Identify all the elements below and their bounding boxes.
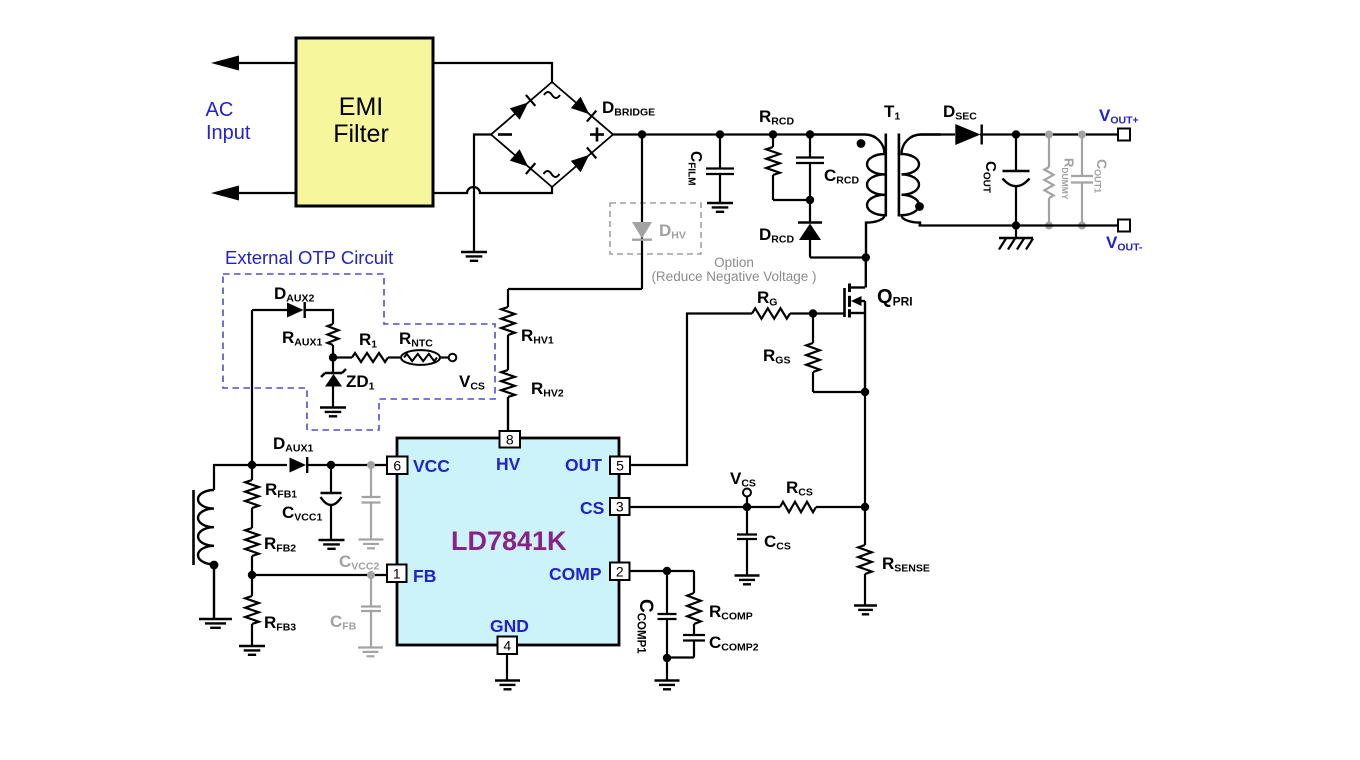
transformer T1 core bbox=[884, 134, 887, 217]
ground (C_FB, gray) bbox=[358, 646, 383, 648]
wire EMI bottom output to bridge bottom vertex (hop over ground wire) bbox=[433, 187, 552, 193]
ground (C_VCC2, gray) bbox=[359, 538, 384, 540]
wire aux rail (D_AUX2 anode down to VCC row) bbox=[251, 310, 253, 465]
pin 4 (GND) bbox=[498, 637, 518, 655]
svg-text:4: 4 bbox=[503, 637, 511, 653]
svg-text:External OTP Circuit: External OTP Circuit bbox=[225, 247, 393, 268]
wire AC line 2 (bottom) to EMI filter bbox=[218, 192, 296, 194]
bridge AC mark bottom (~) bbox=[544, 171, 560, 177]
wire R_G to gate bbox=[790, 312, 844, 314]
resistor R_FB1 bbox=[251, 465, 253, 480]
capacitor C_RCD bbox=[809, 135, 811, 158]
svg-text:3: 3 bbox=[616, 499, 624, 515]
node C_FILM tap bbox=[716, 130, 724, 138]
node RCD clamp junction bbox=[806, 196, 814, 204]
open terminal (NTC sense) bbox=[449, 354, 457, 362]
wire R_CS to source bbox=[816, 506, 865, 508]
node FB divider junction bbox=[248, 571, 256, 579]
arrow AC input top bbox=[211, 56, 239, 71]
bridge diode upper-left (anode at - node) bbox=[510, 102, 529, 119]
ground (C_VCC1) bbox=[319, 539, 345, 541]
svg-text:Option: Option bbox=[714, 255, 754, 270]
node bridge output junction bbox=[638, 130, 646, 138]
wire EMI top output to bridge top vertex bbox=[433, 63, 552, 82]
svg-text:Filter: Filter bbox=[333, 120, 389, 148]
svg-text:6: 6 bbox=[393, 457, 401, 473]
pin 3 (CS) bbox=[610, 498, 630, 515]
wire secondary to D_SEC bbox=[919, 133, 956, 135]
node aux rail / VCC junction bbox=[248, 461, 256, 469]
wire CS pin row bbox=[631, 506, 781, 508]
wire R_NTC to open terminal bbox=[440, 356, 449, 358]
svg-text:FB: FB bbox=[413, 566, 436, 586]
svg-text:COMP: COMP bbox=[549, 564, 602, 584]
wire output - rail bbox=[919, 224, 1119, 226]
node C_VCC2 tap (gray) bbox=[367, 461, 375, 469]
diode bridge D_BRIDGE diamond outline bbox=[491, 82, 613, 187]
thermistor R_NTC bbox=[401, 350, 440, 365]
node OTP divider junction bbox=[329, 353, 337, 361]
wire R_COMP branch down bbox=[693, 571, 695, 593]
diode D_SEC bbox=[955, 124, 980, 145]
pin 1 (FB) bbox=[387, 565, 407, 583]
wire aux winding top bbox=[214, 465, 252, 490]
svg-text:LD7841K: LD7841K bbox=[451, 526, 567, 556]
transformer T1 secondary phase dot bbox=[915, 202, 924, 211]
ground (COMP network) bbox=[655, 679, 680, 681]
wire GND pin to ground bbox=[506, 654, 508, 681]
option box (dashed) for D_HV bbox=[610, 203, 701, 254]
svg-text:CS: CS bbox=[580, 498, 604, 518]
resistor R_HV1 bbox=[501, 307, 515, 335]
wire D_AUX2 cathode to R_AUX1 bbox=[305, 310, 333, 324]
ground (bridge return) bbox=[461, 251, 487, 253]
arrow AC input bottom bbox=[211, 186, 239, 201]
wire bridge - vertex to ground bbox=[474, 135, 491, 253]
wire AC line 1 (top) to EMI filter bbox=[218, 62, 296, 64]
node source junction bbox=[861, 388, 869, 396]
node drain / clamp junction bbox=[862, 253, 870, 261]
transformer aux winding bbox=[198, 490, 214, 619]
wire D_AUX2 anode lead bbox=[252, 309, 287, 311]
earth ground (secondary) bbox=[1015, 226, 1017, 239]
node CS junction bbox=[743, 503, 751, 511]
wire D_AUX1 cathode to VCC pin bbox=[307, 464, 387, 466]
transformer T1 secondary winding bbox=[902, 135, 942, 226]
diode D_RCD (cathode up) bbox=[809, 200, 811, 223]
svg-text:HV: HV bbox=[496, 454, 521, 474]
node R_SENSE junction bbox=[861, 503, 869, 511]
capacitor C_FILM bbox=[719, 135, 721, 169]
dashed region External OTP Circuit bbox=[223, 274, 495, 430]
transformer T1 primary winding bbox=[812, 135, 885, 258]
capacitor C_CS bbox=[746, 507, 748, 534]
transistor Q_PRI (power MOSFET) bbox=[843, 288, 846, 317]
svg-text:1: 1 bbox=[393, 565, 401, 581]
capacitor C_COMP1 bbox=[666, 571, 668, 614]
svg-text:(Reduce Negative Voltage ): (Reduce Negative Voltage ) bbox=[651, 269, 816, 284]
transformer aux core bbox=[192, 490, 195, 565]
svg-text:EMI: EMI bbox=[339, 93, 383, 121]
bridge diode lower-left bbox=[510, 149, 529, 166]
wire COMP branch return bbox=[667, 656, 694, 658]
bridge minus mark bbox=[498, 133, 512, 136]
resistor R_DUMMY (gray) bbox=[1048, 135, 1050, 168]
node C_OUT1 - tap (gray) bbox=[1078, 222, 1086, 230]
node COMP ground junction bbox=[663, 654, 671, 662]
resistor R_SENSE bbox=[864, 507, 866, 545]
diode D_AUX1 bbox=[290, 458, 307, 473]
node C_OUT1 + tap (gray) bbox=[1078, 131, 1086, 139]
svg-text:2: 2 bbox=[616, 563, 624, 579]
node R_DUMMY - tap (gray) bbox=[1045, 222, 1053, 230]
node C_OUT + tap bbox=[1012, 130, 1020, 138]
ground (R_SENSE) bbox=[854, 604, 877, 606]
resistor R_FB2 bbox=[245, 528, 259, 556]
node COMP junction bbox=[663, 567, 671, 575]
wire R_HV2 to HV pin bbox=[507, 397, 509, 431]
svg-text:VCC: VCC bbox=[413, 456, 450, 476]
bridge plus mark bbox=[590, 133, 604, 136]
transformer T1 primary phase dot bbox=[857, 139, 866, 148]
block EMI Filter bbox=[296, 38, 433, 206]
bridge diode upper-right (cathode at + node) bbox=[571, 97, 590, 114]
svg-text:Input: Input bbox=[206, 122, 251, 144]
terminal V_OUT+ bbox=[1118, 129, 1130, 141]
svg-text:GND: GND bbox=[490, 616, 529, 636]
bridge diode lower-right bbox=[571, 155, 590, 172]
wire output + rail bbox=[980, 133, 1118, 135]
resistor R_FB3 bbox=[251, 575, 253, 596]
pin 6 (VCC) bbox=[387, 457, 408, 475]
svg-text:OUT: OUT bbox=[565, 455, 602, 475]
zener diode ZD1 (cathode up) bbox=[325, 372, 342, 374]
wire R1 to R_NTC bbox=[388, 356, 401, 358]
capacitor C_VCC1 (electrolytic) bbox=[330, 465, 332, 493]
bridge AC mark top (~) bbox=[544, 92, 560, 98]
node C_RCD tap bbox=[806, 130, 814, 138]
wire COMP to ground bbox=[666, 658, 668, 681]
pin 2 (COMP) bbox=[610, 563, 630, 581]
wire rectified DC rail bbox=[613, 133, 812, 135]
node R_DUMMY + tap (gray) bbox=[1045, 131, 1053, 139]
capacitor C_FB (gray) bbox=[370, 575, 372, 606]
pin 5 (OUT) bbox=[610, 457, 630, 475]
node gate junction bbox=[809, 309, 817, 317]
ground (aux winding) bbox=[199, 618, 232, 620]
diode D_HV (gray, cathode down) bbox=[632, 222, 652, 239]
node output - junction bbox=[1012, 221, 1020, 229]
ground (C_CS) bbox=[735, 574, 760, 576]
capacitor C_OUT (electrolytic) bbox=[1015, 135, 1017, 171]
wire FB row bbox=[252, 574, 387, 576]
node R_RCD tap bbox=[769, 130, 777, 138]
svg-text:5: 5 bbox=[616, 457, 624, 473]
resistor R_HV2 bbox=[501, 370, 515, 397]
ground (C_FILM) bbox=[707, 202, 733, 204]
node C_VCC1 tap bbox=[327, 461, 335, 469]
wire source to current sense bbox=[864, 392, 866, 507]
resistor R_GS bbox=[812, 314, 814, 344]
terminal V_OUT- bbox=[1118, 220, 1130, 232]
resistor R_AUX1 bbox=[328, 324, 339, 345]
wire VCC row from aux rail bbox=[252, 464, 287, 466]
resistor R_G bbox=[752, 308, 790, 318]
resistor R_RCD bbox=[772, 135, 774, 148]
resistor R_CS bbox=[780, 502, 816, 512]
ground (ZD1) bbox=[320, 406, 346, 408]
op-amp / controller IC U1 LD7841K body bbox=[397, 438, 619, 645]
transformer aux phase dot bbox=[210, 561, 219, 570]
svg-text:AC: AC bbox=[206, 99, 234, 121]
capacitor C_COMP2 bbox=[683, 634, 705, 636]
resistor R1 bbox=[352, 353, 388, 362]
node V_CS open terminal bbox=[743, 489, 751, 497]
diode D_AUX2 bbox=[287, 303, 304, 318]
capacitor C_VCC2 (gray) bbox=[370, 465, 372, 497]
ground (IC GND) bbox=[495, 679, 520, 681]
node C_FB tap (gray) bbox=[367, 571, 375, 579]
wire COMP pin row bbox=[630, 570, 695, 572]
pin 8 (HV) bbox=[500, 431, 521, 448]
svg-text:8: 8 bbox=[506, 431, 514, 447]
ground (R_FB3) bbox=[239, 645, 265, 647]
resistor R_COMP bbox=[687, 593, 701, 624]
wire OUT pin to gate resistor bbox=[631, 314, 752, 466]
wire HV feed from DC rail through D_HV bbox=[508, 135, 642, 308]
wire R1 lead bbox=[333, 356, 352, 358]
capacitor C_OUT1 (gray) bbox=[1081, 135, 1083, 176]
